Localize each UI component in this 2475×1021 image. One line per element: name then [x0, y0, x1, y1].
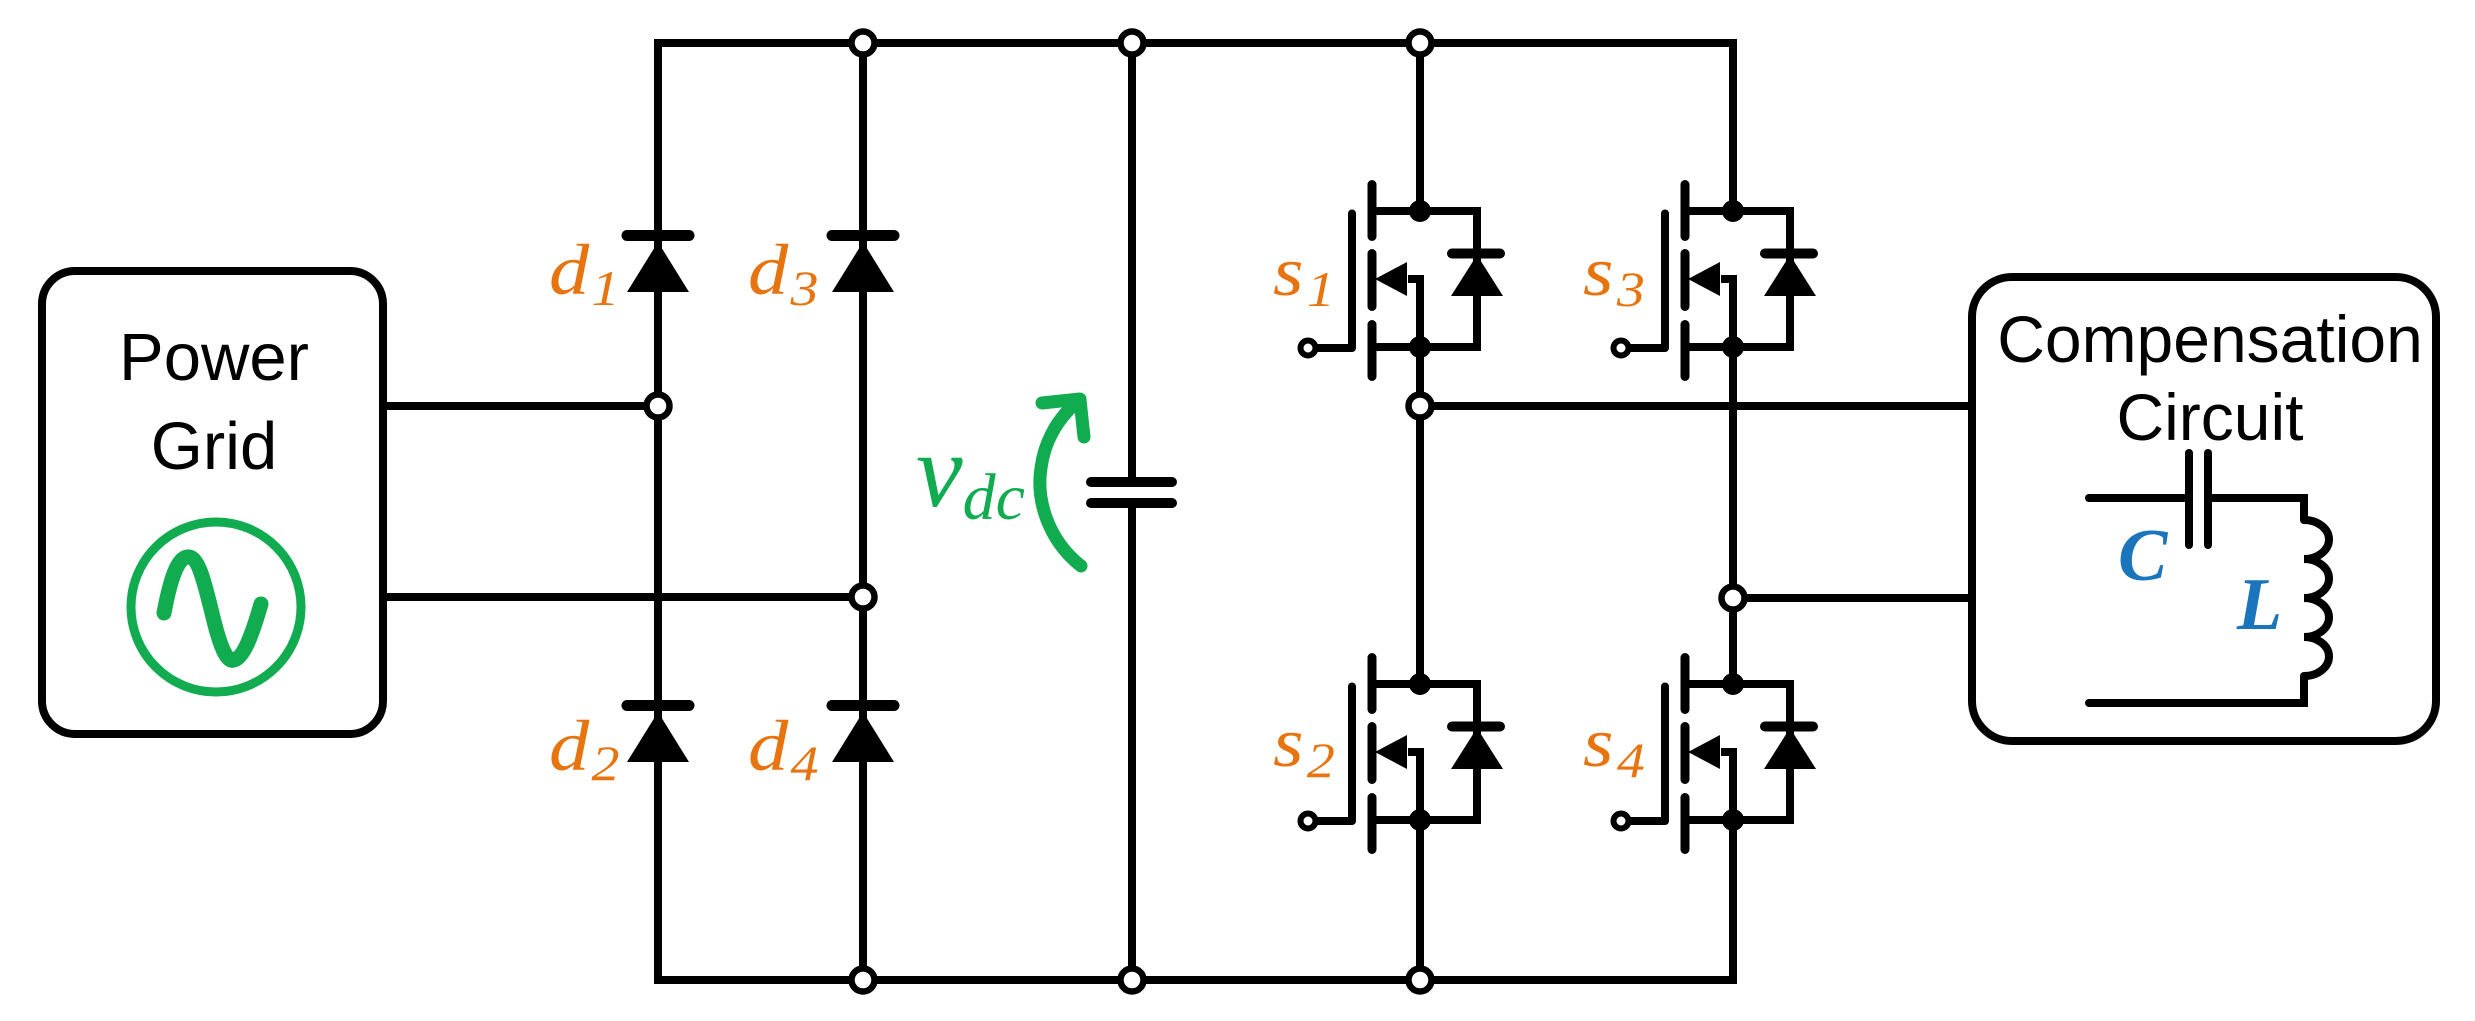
- compensation circuit box: [1972, 277, 2436, 741]
- wire power grid upper lead: [383, 402, 658, 410]
- node grid lower: [852, 586, 875, 609]
- mosfet S3: [1614, 185, 1817, 377]
- wire power grid lower lead: [383, 593, 863, 601]
- wire output upper (to compensation): [1420, 402, 1975, 410]
- wire bottom rail: [654, 976, 1737, 984]
- node output upper: [1409, 395, 1432, 418]
- svg-text:Compensation: Compensation: [1997, 302, 2423, 376]
- wire bridge right rail: [859, 43, 867, 980]
- wire dc-link capacitor branch bottom: [1128, 507, 1136, 980]
- wire left bridge rail: [654, 39, 662, 984]
- node top bridge: [852, 32, 875, 55]
- svg-text:C: C: [2118, 515, 2169, 597]
- wire H-bridge right leg top: [1729, 39, 1737, 211]
- dc-link capacitor: [1091, 482, 1172, 503]
- power grid box: [42, 271, 383, 734]
- compensation capacitor wire right: [2213, 498, 2304, 520]
- wire dc-link capacitor branch top: [1128, 43, 1136, 478]
- capacitor C: [2189, 453, 2208, 545]
- node bottom capacitor: [1121, 969, 1144, 992]
- node bottom bridge: [852, 969, 875, 992]
- svg-text:L: L: [2236, 564, 2282, 646]
- mosfet S1: [1301, 185, 1504, 377]
- compensation bottom wire: [2089, 676, 2304, 703]
- diode d2: [627, 706, 689, 763]
- wire H-bridge right leg middle: [1729, 347, 1737, 684]
- wire output lower (to compensation): [1733, 594, 1975, 602]
- wire H-bridge right leg bottom: [1729, 820, 1737, 984]
- svg-text:Circuit: Circuit: [2116, 380, 2303, 454]
- node top H-bridge: [1409, 32, 1432, 55]
- node top capacitor: [1121, 32, 1144, 55]
- wire H-bridge left leg middle: [1416, 347, 1424, 684]
- diode d1: [627, 236, 689, 293]
- vdc arrow: [1040, 399, 1084, 566]
- wire top rail: [654, 39, 1737, 47]
- mosfet S2: [1301, 658, 1504, 850]
- svg-text:Power: Power: [119, 320, 309, 395]
- mosfet S4: [1614, 658, 1817, 850]
- node output lower: [1722, 587, 1745, 610]
- inductor L: [2304, 520, 2329, 676]
- node bottom H-bridge: [1409, 969, 1432, 992]
- compensation circuit label: [1997, 302, 2423, 454]
- diode d3: [832, 236, 894, 293]
- wire H-bridge left leg upper: [1416, 43, 1424, 211]
- wire H-bridge left leg lower: [1416, 820, 1424, 980]
- AC source symbol: [131, 522, 301, 692]
- node grid upper: [647, 395, 670, 418]
- compensation capacitor wire left: [2089, 494, 2184, 502]
- power grid label: [119, 320, 309, 484]
- svg-text:Grid: Grid: [151, 409, 278, 484]
- diode d4: [832, 706, 894, 763]
